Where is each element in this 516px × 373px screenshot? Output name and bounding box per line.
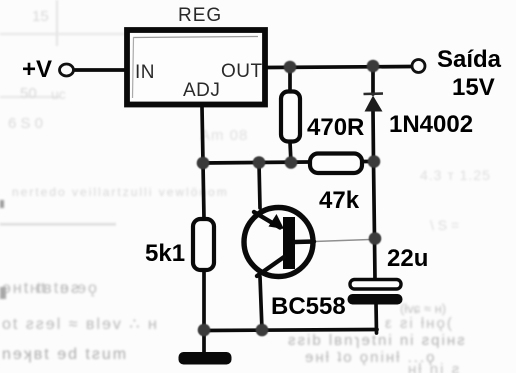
svg-text:BC558: BC558	[271, 293, 346, 320]
svg-text:47k: 47k	[319, 187, 360, 214]
svg-text:ADJ: ADJ	[183, 80, 220, 101]
svg-text:ʜt tʙ ɘǫ: ʜt tʙ ɘǫ	[30, 280, 99, 297]
svg-text:Saída: Saída	[437, 46, 502, 73]
svg-text:\ S =: \ S =	[430, 217, 459, 233]
svg-text:+V: +V	[22, 56, 52, 83]
svg-text:1N4002: 1N4002	[389, 111, 473, 138]
svg-text:470R: 470R	[307, 114, 364, 141]
svg-text:uc: uc	[51, 86, 66, 102]
svg-text:50: 50	[20, 85, 37, 102]
svg-text:5k1: 5k1	[145, 240, 185, 267]
svg-text:22u: 22u	[387, 245, 428, 272]
svg-text:(ƚvɕ ≈ ʜ): (ƚvɕ ≈ ʜ)	[400, 301, 446, 316]
svg-text:15V: 15V	[452, 74, 495, 101]
svg-text:15: 15	[32, 8, 49, 25]
svg-text:6 S 0: 6 S 0	[8, 115, 43, 132]
svg-text:REG: REG	[178, 5, 222, 26]
svg-text:ʜƚ ni ƨ: ʜƚ ni ƨ	[408, 361, 461, 373]
svg-text:ot ƨƨɘl ≈ ʙlɘv ∴ ʜ: ot ƨƨɘl ≈ ʙlɘv ∴ ʜ	[2, 316, 159, 333]
svg-text:4.3 т 1.25: 4.3 т 1.25	[420, 167, 491, 183]
svg-text:ε ƨi ƚʜǫ(: ε ƨi ƚʜǫ(	[385, 315, 454, 332]
svg-text:nertedo veillartzulli vewlöноm: nertedo veillartzulli vewlöноm	[12, 185, 229, 199]
svg-text:IN: IN	[135, 62, 155, 83]
svg-text:OUT: OUT	[221, 61, 263, 82]
svg-text:Am 08: Am 08	[200, 127, 248, 144]
svg-text:nɘʞʙt ɘd tƨum: nɘʞʙt ɘd tƨum	[2, 346, 128, 363]
